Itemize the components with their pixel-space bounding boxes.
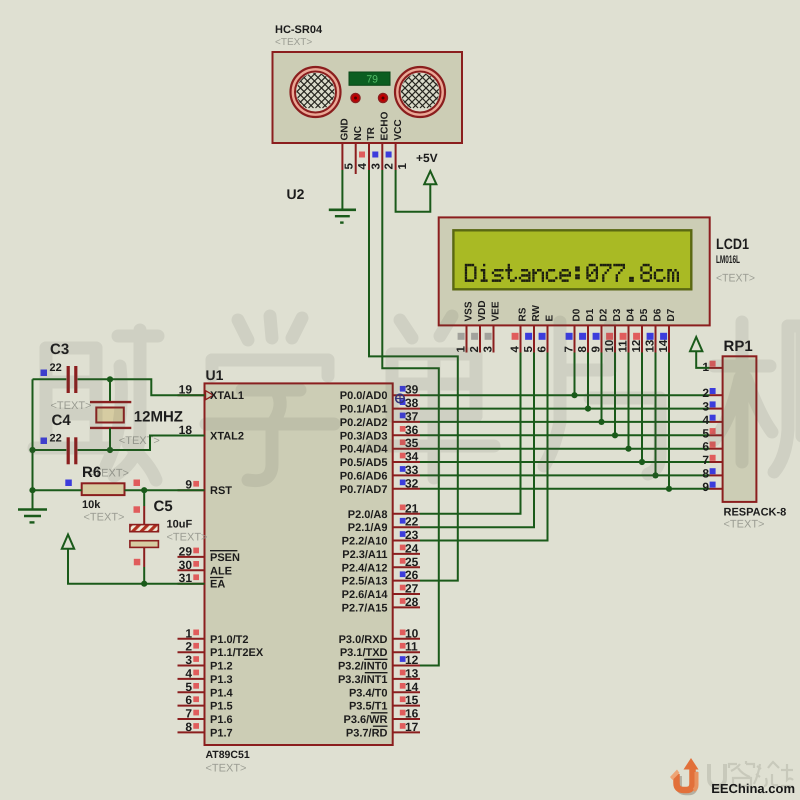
svg-text:14: 14 (658, 339, 670, 352)
svg-text:15: 15 (405, 693, 419, 707)
svg-text:11: 11 (618, 340, 630, 353)
wire U1 P0.2 to RP1 pin 4 (420, 421, 710, 423)
U2 pin 3 TR (366, 126, 382, 170)
svg-text:9: 9 (591, 346, 603, 352)
junction C5 / EA (141, 581, 147, 587)
LCD1 pin 8 D1 (577, 308, 596, 352)
svg-text:36: 36 (405, 423, 419, 437)
svg-text:VCC: VCC (393, 119, 404, 140)
wire left vertical C3/C4/R6 (32, 379, 34, 490)
svg-text:VEE: VEE (490, 301, 501, 321)
svg-text:D4: D4 (625, 308, 636, 321)
svg-text:RESPACK-8: RESPACK-8 (724, 507, 787, 519)
wire C3 left (33, 378, 67, 380)
LCD1 pin 2 VDD (469, 300, 488, 352)
RP1 pin 2 (702, 386, 722, 400)
LCD1 reference labels (716, 236, 755, 285)
RP1 pin 1 (702, 360, 722, 374)
RP1 pin 4 (702, 413, 722, 427)
svg-text:D2: D2 (598, 308, 609, 321)
svg-text:D5: D5 (639, 308, 650, 321)
wire U1 P0.7 to RP1 pin 9 (420, 488, 710, 490)
LCD1 pin 3 VEE (483, 301, 502, 352)
svg-text:4: 4 (357, 163, 369, 170)
svg-text:<TEXT>: <TEXT> (206, 763, 247, 775)
wire C4 left (33, 449, 67, 451)
wire U1 P0.3 to RP1 pin 5 (420, 434, 710, 436)
U1 pin 19 XTAL1 (178, 383, 245, 403)
LCD1 pin 7 D0 (564, 308, 583, 352)
svg-text:P3.1/TXD: P3.1/TXD (340, 647, 388, 659)
svg-text:P2.2/A10: P2.2/A10 (342, 536, 388, 548)
U1 pin 26 P2.5/A13 (342, 568, 420, 588)
wire R6 left (33, 489, 82, 491)
LCD1 pin 13 D6 (645, 308, 664, 352)
wire LCD D4 to P0.4 bus (628, 353, 630, 449)
svg-text:P0.0/AD0: P0.0/AD0 (340, 390, 388, 402)
U1 pin 34 P0.5/AD5 (340, 450, 420, 470)
svg-text:D1: D1 (585, 308, 596, 321)
LCD1 screen (453, 230, 691, 289)
junction RST / C5 (141, 487, 147, 493)
U1 pin 12 P3.2/INT0 (338, 653, 420, 673)
svg-text:6: 6 (537, 346, 549, 352)
svg-text:P2.1/A9: P2.1/A9 (348, 522, 388, 534)
watermark (decorative) (34, 316, 800, 481)
svg-text:P3.3/INT1: P3.3/INT1 (338, 674, 388, 686)
svg-text:24: 24 (405, 541, 419, 555)
LCD1 screen text Distance:077.8cm (465, 264, 679, 282)
svg-text:23: 23 (405, 528, 419, 542)
RP1 pin 5 (702, 426, 722, 440)
U1 pin 36 P0.3/AD3 (340, 423, 420, 443)
svg-text:P2.6/A14: P2.6/A14 (342, 589, 389, 601)
U1 pin 15 P3.5/T1 (349, 693, 420, 713)
junction D2/P0.2 (598, 419, 604, 425)
svg-text:22: 22 (405, 515, 419, 529)
LCD1 pin 14 D7 (658, 308, 677, 352)
svg-text:GND: GND (340, 118, 351, 140)
svg-text:7: 7 (702, 453, 709, 467)
svg-text:5: 5 (523, 346, 535, 353)
capacitor C3 labels (50, 341, 92, 412)
svg-text:<TEXT>: <TEXT> (167, 532, 208, 544)
U1 pin 39 P0.0/AD0 (340, 383, 420, 403)
power +5V arrow at RP1 (690, 337, 702, 351)
U2 indicator LED left (351, 94, 360, 103)
U2 pin 4 NC (353, 126, 369, 174)
U1 pin 35 P0.4/AD4 (340, 436, 420, 456)
RP1 pin 8 (702, 466, 722, 480)
svg-text:P0.6/AD6: P0.6/AD6 (340, 470, 388, 482)
svg-text:2: 2 (185, 640, 192, 654)
MCU U1 AT89C51 body (205, 383, 393, 745)
resistor pack RP1 reference label (724, 338, 753, 355)
LCD1 pin 12 D5 (631, 308, 650, 352)
LCD LCD1 body (439, 217, 710, 325)
capacitor C5 labels (154, 498, 208, 544)
U1 pin 30 ALE (178, 558, 233, 578)
svg-text:38: 38 (405, 396, 419, 410)
U2 pin 5 GND (340, 118, 356, 170)
svg-text:P2.7/A15: P2.7/A15 (342, 602, 388, 614)
svg-text:NC: NC (353, 126, 364, 140)
svg-text:16: 16 (405, 707, 419, 721)
svg-text:5: 5 (185, 680, 192, 694)
LCD1 pin 11 D4 (618, 308, 637, 352)
svg-text:4: 4 (185, 666, 192, 680)
svg-text:8: 8 (702, 466, 709, 480)
LCD1 pin 5 RW (523, 304, 542, 352)
svg-text:8: 8 (577, 346, 589, 353)
U1 pin 14 P3.4/T0 (349, 680, 420, 700)
U1 pin 28 P2.7/A15 (342, 595, 420, 615)
svg-text:3: 3 (702, 400, 709, 414)
svg-text:ECHO: ECHO (380, 111, 391, 140)
junction crystal bottom (107, 447, 113, 453)
RP1 pin 3 (702, 400, 722, 414)
resistor pack RP1 body (723, 356, 757, 502)
U1 pin 9 RST (178, 478, 233, 498)
U1 pin 23 P2.2/A10 (342, 528, 420, 548)
U1 pin 8 P1.7 (178, 720, 233, 740)
wire C3 to XTAL1 (78, 379, 205, 395)
capacitor C5 polarized plate (130, 525, 159, 532)
wire U2 TR to U1 P2.5 (369, 170, 458, 581)
svg-text:P2.5/A13: P2.5/A13 (342, 576, 388, 588)
svg-text:XTAL2: XTAL2 (210, 431, 244, 443)
U1 pin 27 P2.6/A14 (342, 582, 420, 602)
U1 pin 32 P0.7/AD7 (340, 476, 420, 496)
LCD1 pin 4 RS (510, 307, 529, 352)
svg-text:E: E (544, 315, 555, 322)
U1 pin 1 P1.0/T2 (178, 626, 249, 646)
svg-text:D3: D3 (612, 308, 623, 321)
U1 pin 2 P1.1/T2EX (178, 640, 264, 660)
wire LCD D7 to P0.7 bus (668, 353, 670, 489)
capacitor C3 (67, 366, 78, 393)
U1 pin 25 P2.4/A12 (342, 555, 420, 575)
wire U1 P0.1 to RP1 pin 3 (420, 408, 710, 410)
wire LCD D1 to P0.1 bus (587, 353, 589, 409)
wire LCD D2 to P0.2 bus (601, 353, 603, 422)
wire C5 top (143, 490, 145, 524)
svg-text:P3.7/RD: P3.7/RD (346, 727, 388, 739)
RP1 pin 9 (702, 480, 722, 494)
svg-text:R6: R6 (82, 464, 101, 481)
U1 pin 31 EA (178, 571, 226, 591)
ground symbol under U2 (329, 210, 356, 223)
RP1 pin 7 (702, 453, 722, 467)
U1 pin 10 P3.0/RXD (339, 626, 420, 646)
svg-text:<TEXT>: <TEXT> (716, 273, 755, 285)
LCD1 pin 6 E (537, 315, 556, 353)
svg-text:VDD: VDD (477, 300, 488, 321)
svg-text:1: 1 (185, 626, 192, 640)
C5 bottom net state square (134, 559, 141, 566)
svg-text:11: 11 (405, 640, 418, 654)
wire LCD D5 to P0.5 bus (641, 353, 643, 463)
svg-text:P3.2/INT0: P3.2/INT0 (338, 661, 388, 673)
junction D1/P0.1 (585, 406, 591, 412)
svg-text:U2: U2 (287, 186, 305, 202)
svg-text:79: 79 (366, 74, 378, 86)
svg-text:5: 5 (344, 163, 356, 170)
ground symbol under R6 (18, 490, 47, 522)
RP1 part labels (724, 507, 787, 531)
svg-text:12: 12 (405, 653, 419, 667)
U1 pin 24 P2.3/A11 (342, 541, 420, 561)
U1 pin 18 XTAL2 (178, 423, 245, 443)
svg-text:C5: C5 (154, 498, 173, 515)
wire R6 to U1 RST (125, 489, 205, 491)
EEChina U logo (670, 758, 699, 792)
svg-text:21: 21 (405, 501, 419, 515)
svg-text:10k: 10k (82, 499, 101, 511)
svg-text:<TEXT>: <TEXT> (724, 519, 765, 531)
EEChina.com caption (711, 781, 795, 796)
svg-text:PSEN: PSEN (210, 552, 240, 564)
svg-text:P1.1/T2EX: P1.1/T2EX (210, 647, 264, 659)
capacitor C4 (67, 437, 78, 464)
svg-text:P1.2: P1.2 (210, 661, 233, 673)
svg-text:33: 33 (405, 463, 419, 477)
wire LCD D6 to P0.6 bus (655, 353, 657, 476)
svg-text:P0.2/AD2: P0.2/AD2 (340, 417, 388, 429)
svg-text:26: 26 (405, 568, 419, 582)
U1 pin 3 P1.2 (178, 653, 233, 673)
svg-text:2: 2 (702, 386, 709, 400)
U1 pin 33 P0.6/AD6 (340, 463, 420, 483)
svg-text:LCD1: LCD1 (716, 236, 749, 253)
U1 XTAL1 clock input triangle (206, 391, 214, 400)
svg-text:13: 13 (405, 666, 419, 680)
U1 pin 22 P2.1/A9 (348, 515, 420, 535)
wire U2 GND to ground (341, 170, 343, 209)
svg-text:9: 9 (702, 480, 709, 494)
svg-text:4: 4 (702, 413, 709, 427)
svg-text:13: 13 (645, 340, 657, 353)
wire C4 to XTAL2 (78, 436, 205, 451)
power +5V arrow at EA (62, 535, 74, 549)
junction D3/P0.3 (612, 432, 618, 438)
capacitor C4 labels (50, 412, 72, 444)
svg-text:P2.4/A12: P2.4/A12 (342, 562, 388, 574)
svg-text:29: 29 (179, 544, 193, 558)
junction R6 left / ground (29, 487, 35, 493)
wire U2 ECHO to U1 P3.2 (382, 170, 439, 666)
LCD1 pin 10 D3 (604, 308, 623, 352)
svg-text:<TEXT>: <TEXT> (275, 37, 312, 48)
resistor R6 labels (82, 464, 129, 524)
svg-text:AT89C51: AT89C51 (206, 749, 250, 761)
MCU U1 reference label (206, 367, 224, 383)
resistor R6 body (82, 483, 125, 495)
svg-text:P1.4: P1.4 (210, 687, 234, 699)
wire RP1 pin1 to +5V (696, 351, 709, 368)
U1 pin 11 P3.1/TXD (340, 640, 420, 660)
svg-text:P2.3/A11: P2.3/A11 (342, 549, 387, 561)
U1 part labels (206, 749, 250, 775)
svg-text:D7: D7 (666, 308, 677, 321)
svg-text:1: 1 (397, 163, 409, 170)
U2 left transducer (253, 67, 370, 117)
wire +5V to U1 EA (68, 549, 205, 584)
R6 net state square (65, 480, 72, 487)
svg-text:P3.0/RXD: P3.0/RXD (339, 634, 388, 646)
U2 reference label (287, 186, 305, 202)
U1 pin 37 P0.2/AD2 (340, 409, 420, 429)
junction D7/P0.7 (666, 486, 672, 492)
U1 pin 29 PSEN (178, 544, 241, 564)
svg-text:P1.6: P1.6 (210, 714, 233, 726)
junction D6/P0.6 (652, 472, 658, 478)
voltage probe marker on P0.1 net (395, 394, 405, 404)
svg-text:LM016L: LM016L (716, 254, 740, 266)
junction D0/P0.0 (571, 392, 577, 398)
svg-text:3: 3 (185, 653, 192, 667)
svg-text:25: 25 (405, 555, 419, 569)
U1 pin 17 P3.7/RD (346, 720, 420, 740)
U1 pin 6 P1.5 (178, 693, 233, 713)
svg-text:RST: RST (210, 485, 232, 497)
crystal labels (119, 408, 183, 447)
C3 net state square (41, 370, 48, 377)
svg-text:RW: RW (531, 304, 542, 321)
svg-text:10: 10 (405, 626, 419, 640)
U2 distance display 79 (349, 72, 390, 86)
U2 pin 2 ECHO (380, 111, 396, 170)
wire U1 P0.5 to RP1 pin 7 (420, 461, 710, 463)
wire U1 P0.6 to RP1 pin 8 (420, 474, 710, 476)
U1 pin 16 P3.6/WR (343, 707, 420, 727)
svg-text:P3.4/T0: P3.4/T0 (349, 687, 388, 699)
svg-text:14: 14 (405, 680, 419, 694)
svg-text:6: 6 (185, 693, 192, 707)
svg-text:+5V: +5V (416, 151, 438, 165)
wire U2 VCC to +5V (396, 170, 431, 212)
svg-text:28: 28 (405, 595, 419, 609)
svg-text:12: 12 (631, 340, 643, 353)
svg-text:2: 2 (384, 163, 396, 169)
svg-text:P1.3: P1.3 (210, 674, 233, 686)
sensor U2 HC-SR04 body (273, 52, 463, 143)
LCD1 pin 1 VSS (456, 301, 475, 352)
svg-text:HC-SR04: HC-SR04 (275, 24, 323, 36)
svg-text:ALE: ALE (210, 565, 232, 577)
svg-text:D6: D6 (652, 308, 663, 321)
svg-text:EEChina.com: EEChina.com (711, 781, 795, 796)
wire U1 P0.0 to RP1 pin 2 (420, 394, 710, 396)
U1 pin 7 P1.6 (178, 707, 233, 727)
svg-text:17: 17 (405, 720, 419, 734)
svg-text:D0: D0 (571, 308, 582, 321)
junction C4 left (29, 447, 35, 453)
svg-text:<TEXT>: <TEXT> (84, 512, 125, 524)
C5 top net state square (134, 506, 141, 513)
wire LCD D3 to P0.3 bus (614, 353, 616, 436)
svg-text:10uF: 10uF (167, 519, 193, 531)
svg-text:30: 30 (179, 558, 193, 572)
crystal X1 12MHZ (90, 379, 131, 450)
svg-text:EA: EA (210, 579, 225, 591)
svg-text:P2.0/A8: P2.0/A8 (348, 509, 388, 521)
U2 pin 1 VCC (393, 119, 409, 170)
junction D4/P0.4 (625, 446, 631, 452)
RST net state square (134, 480, 141, 487)
svg-text:P1.5: P1.5 (210, 701, 233, 713)
wire LCD RW to U1 P2.1 (420, 353, 534, 528)
svg-text:P0.1/AD1: P0.1/AD1 (340, 404, 388, 416)
U1 pin 38 P0.1/AD1 (340, 396, 420, 416)
svg-text:4: 4 (510, 346, 522, 353)
U1 pin 21 P2.0/A8 (348, 501, 420, 521)
wire C5 bottom (143, 547, 145, 583)
svg-text:P0.5/AD5: P0.5/AD5 (340, 457, 388, 469)
svg-text:P3.5/T1: P3.5/T1 (349, 701, 388, 713)
svg-text:3: 3 (483, 346, 495, 352)
svg-text:27: 27 (405, 582, 419, 596)
svg-text:P1.7: P1.7 (210, 727, 233, 739)
C4 net state square (41, 438, 48, 445)
svg-text:P1.0/T2: P1.0/T2 (210, 634, 249, 646)
svg-text:VSS: VSS (463, 301, 474, 321)
sensor U2 HC-SR04 label (275, 24, 323, 48)
U1 pin 13 P3.3/INT1 (338, 666, 420, 686)
wire LCD RS to U1 P2.0 (420, 353, 521, 514)
wire U1 P0.4 to RP1 pin 6 (420, 448, 710, 450)
svg-text:P0.7/AD7: P0.7/AD7 (340, 484, 388, 496)
svg-text:32: 32 (405, 476, 419, 490)
U2 indicator LED right (379, 94, 388, 103)
wire LCD D0 to P0.0 bus (574, 353, 576, 396)
svg-text:7: 7 (185, 707, 192, 721)
svg-text:RS: RS (517, 307, 528, 321)
svg-text:3: 3 (370, 163, 382, 169)
power +5V arrow at U2 (416, 151, 438, 184)
RP1 pin 6 (702, 440, 722, 454)
U2 right transducer (357, 67, 474, 117)
wire LCD E to U1 P2.2 (420, 353, 548, 541)
svg-text:8: 8 (185, 720, 192, 734)
U1 pin 5 P1.4 (178, 680, 234, 700)
capacitor C5 bottom plate (130, 541, 159, 548)
junction D5/P0.5 (639, 459, 645, 465)
watermark U-forum text (decorative) (709, 761, 793, 786)
svg-text:TR: TR (366, 126, 377, 140)
junction crystal top (107, 376, 113, 382)
U1 pin 4 P1.3 (178, 666, 233, 686)
LCD1 pin 9 D2 (591, 308, 610, 352)
svg-text:P3.6/WR: P3.6/WR (343, 714, 387, 726)
